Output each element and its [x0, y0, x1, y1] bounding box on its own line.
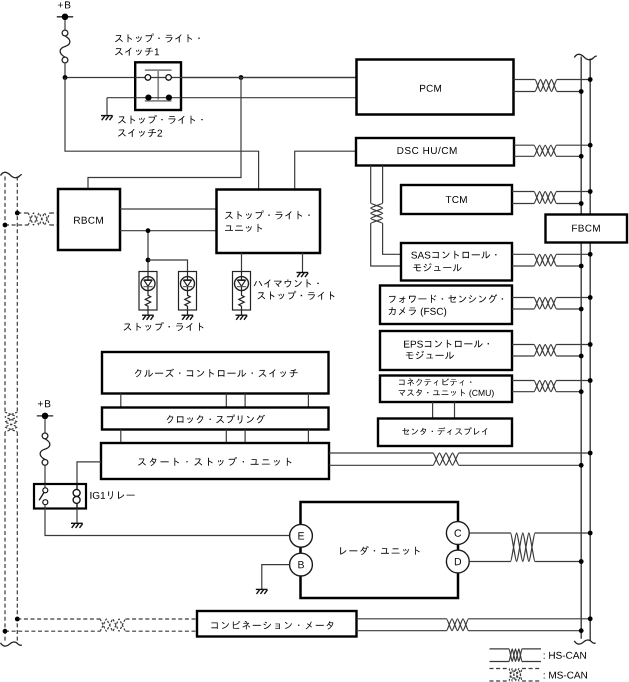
- label FSC line 2: [389, 307, 447, 317]
- junction dot on CAN-L line for wire pair SAS to HS-CAN bus: [579, 264, 584, 269]
- junction dot MS-CAN meter upper: [15, 617, 20, 622]
- wire fuse to IG1 relay: [44, 465, 46, 484]
- module center display: [378, 419, 512, 447]
- wire stop-light-switch row 2 (ground to PCM): [107, 97, 357, 99]
- switch 1 contact left (open): [145, 75, 151, 81]
- power symbol +B (top feed): [57, 1, 73, 20]
- switch 2 contact left (closed): [145, 95, 151, 101]
- ground below stop light lamp 2: [182, 315, 194, 320]
- wire HS-CAN bus CAN-L trunk (left vertical): [580, 57, 582, 639]
- wire switch row 2 ground drop: [106, 98, 108, 116]
- junction dot on CAN-H line for wire pair PCM to HS-CAN bus: [588, 77, 593, 82]
- wire D: switch output node to RBCM: [88, 78, 241, 190]
- switch box (stop-light switches 1 and 2): [135, 62, 181, 110]
- wire pair combination meter to HS-CAN bus: [357, 619, 591, 631]
- junction dot on CAN-L line for wire pair radar C/D to HS-CAN bus: [579, 559, 584, 564]
- junction dot on CAN-L line for wire pair PCM to HS-CAN bus: [579, 89, 584, 94]
- junction dot MS-CAN meter lower: [3, 629, 8, 634]
- wire start stop unit to IG1 relay coil: [77, 462, 101, 484]
- wire pair EPS to HS-CAN bus: [512, 345, 590, 357]
- relay contact bottom (open): [43, 500, 48, 505]
- label IG1 relay: [90, 491, 134, 499]
- label radar unit: [340, 546, 420, 555]
- module combination meter: [197, 611, 357, 637]
- break symbol at top of MS-CAN bus: [1, 172, 22, 177]
- switch actuator bars: [145, 70, 172, 101]
- label combination meter: [211, 621, 333, 630]
- radar terminal E: [290, 524, 313, 547]
- junction dot on CAN-L line for wire pair FSC to HS-CAN bus: [579, 307, 584, 312]
- label PCM: [420, 85, 441, 92]
- ground for stop-light switch 2: [101, 116, 113, 121]
- junction dot on CAN-L line for wire pair combination meter to HS-CAN bus: [579, 628, 584, 633]
- legend HS-CAN twisted pair symbol: [490, 649, 542, 662]
- break symbol at bottom of MS-CAN bus: [1, 642, 22, 646]
- wire branch to stop light 2: [148, 260, 188, 272]
- relay contact stem top: [44, 484, 46, 488]
- label EPS line 2: [406, 351, 454, 359]
- junction dot on CAN-L line for wire pair start stop unit to HS-CAN bus: [579, 463, 584, 468]
- relay coil IG1: [73, 484, 80, 509]
- break symbol at top of HS-CAN bus: [574, 54, 597, 59]
- legend HS-CAN text: [544, 652, 586, 659]
- ground for radar unit: [256, 589, 268, 594]
- wire radar B to ground: [262, 565, 290, 590]
- radar terminal D: [446, 550, 469, 573]
- label stop-light switch 2 line 1: [118, 115, 203, 124]
- junction dot MS-CAN line1/RBCM: [3, 223, 8, 228]
- wire MS-CAN bus to RBCM line 1 (dashed): [17, 213, 58, 225]
- break symbol at bottom of HS-CAN bus: [574, 640, 595, 644]
- module SAS control module: [401, 243, 512, 281]
- wire pair SAS to HS-CAN bus: [512, 254, 590, 266]
- junction dot on CAN-H line for wire pair TCM to HS-CAN bus: [588, 189, 593, 194]
- radar terminal B: [290, 553, 313, 576]
- module FBCM: [546, 215, 628, 243]
- high-mount stop light lamp: [233, 272, 251, 316]
- wire pair DSC HU/CM to HS-CAN bus: [514, 145, 590, 156]
- junction dot on CAN-H line for wire pair FSC to HS-CAN bus: [588, 295, 593, 300]
- power symbol +B (IG1 feed): [37, 400, 53, 419]
- wire B: +B node to stop-light unit: [65, 78, 259, 189]
- junction dot on CAN-H line for wire pair CMU to HS-CAN bus: [588, 378, 593, 383]
- module cruise control switch: [102, 352, 329, 394]
- wire MS-CAN bus to RBCM line 2 (dashed): [5, 213, 58, 225]
- junction dot on CAN-L line for wire pair DSC HU/CM to HS-CAN bus: [579, 154, 584, 159]
- wire RBCM to stop-light unit lower: [120, 230, 217, 232]
- legend MS-CAN text: [544, 672, 587, 679]
- wires cruise switch to clock spring: [121, 394, 309, 408]
- relay contact stem bottom: [44, 505, 46, 509]
- label stop light unit line 1: [225, 210, 310, 219]
- wire pair FSC to HS-CAN bus: [512, 298, 590, 310]
- wire +B2 to fuse: [44, 419, 46, 433]
- wire stop-light-switch row 1 (+B node to PCM): [65, 77, 357, 79]
- junction dot on CAN-L line for wire pair EPS to HS-CAN bus: [579, 354, 584, 359]
- wire CMU to display connector 2: [454, 402, 456, 419]
- stop light lamp 1: [139, 272, 157, 316]
- ground for stop light unit: [297, 273, 309, 278]
- wire MS-CAN bus to meter line 1 (dashed): [17, 619, 197, 631]
- wire IG1 coil ground: [76, 509, 78, 524]
- wire MS-CAN bus trunk line 2 (dashed): [5, 177, 17, 642]
- module DSC HU/CM: [356, 138, 514, 166]
- wire stop light unit to high-mount lamp: [241, 253, 243, 272]
- label CMU line 2: [399, 389, 494, 398]
- label TCM: [446, 196, 467, 203]
- fuse below top +B: [60, 30, 70, 63]
- wire RBCM to stop-light unit upper: [120, 208, 217, 210]
- label SAS line 2: [414, 263, 462, 271]
- wire pair PCM to HS-CAN bus: [514, 80, 591, 92]
- wire DSC to SAS line 2: [371, 166, 401, 255]
- node junction on RBCM lower wire: [146, 228, 151, 233]
- wire IG1 relay to radar terminal E: [45, 509, 290, 536]
- label stop lights: [124, 322, 204, 331]
- junction dot on CAN-H line for wire pair SAS to HS-CAN bus: [588, 252, 593, 257]
- label stop-light switch 2 line 2: [118, 129, 162, 137]
- relay contact top (open): [43, 488, 48, 493]
- junction dot on CAN-H line for wire pair DSC HU/CM to HS-CAN bus: [588, 143, 593, 148]
- junction dot on CAN-L line for wire pair TCM to HS-CAN bus: [579, 201, 584, 206]
- wire pair CMU to HS-CAN bus: [512, 381, 590, 392]
- ground for IG1 relay coil: [71, 523, 83, 528]
- module radar unit: [301, 502, 459, 598]
- wire pair radar C/D to HS-CAN bus: [469, 533, 590, 562]
- label EPS line 1: [404, 340, 489, 348]
- label FSC line 1: [389, 294, 503, 303]
- module EPS control module: [380, 331, 512, 370]
- switch 2 contact right (closed): [166, 95, 172, 101]
- relay switch blade: [39, 493, 44, 501]
- switch 1 contact right (open): [166, 75, 172, 81]
- stop light lamp 2: [179, 272, 197, 316]
- relay box IG1: [34, 484, 86, 509]
- label high-mount line 1: [254, 279, 319, 287]
- junction dot on CAN-H line for wire pair EPS to HS-CAN bus: [588, 342, 593, 347]
- module stop light unit: [217, 190, 321, 254]
- label center display: [402, 427, 487, 435]
- label stop-light switch 1 line 2: [115, 48, 159, 56]
- wire row1 inside switch box: [135, 77, 356, 79]
- wire pair start stop unit to HS-CAN bus: [329, 453, 590, 465]
- label CMU line 1: [399, 378, 471, 385]
- junction dot on CAN-L line for wire pair CMU to HS-CAN bus: [579, 389, 584, 394]
- junction dot on CAN-H line for wire pair combination meter to HS-CAN bus: [588, 616, 593, 621]
- label stop-light switch 1 line 1: [115, 34, 200, 43]
- wire stop light unit ground drop: [302, 253, 304, 272]
- fuse below second +B: [40, 433, 50, 465]
- node junction switch output: [239, 75, 244, 80]
- wire HS-CAN bus CAN-H trunk (right vertical): [589, 59, 591, 641]
- junction dot on CAN-H line for wire pair start stop unit to HS-CAN bus: [588, 451, 593, 456]
- node junction stop light branch: [146, 258, 151, 263]
- label high-mount line 2: [257, 291, 334, 300]
- label start stop unit: [138, 457, 291, 466]
- junction dot on CAN-H line for wire pair radar C/D to HS-CAN bus: [588, 531, 593, 536]
- label cruise control switch: [135, 369, 298, 378]
- label stop light unit line 2: [225, 224, 262, 232]
- wire from +B to fuse: [64, 20, 66, 30]
- wires clock spring to start stop unit: [121, 430, 309, 444]
- radar terminal C: [446, 522, 469, 545]
- junction dot MS-CAN line2/RBCM: [15, 211, 20, 216]
- module forward sensing camera FSC: [380, 286, 512, 325]
- wire CMU to display connector 1: [432, 402, 434, 419]
- ground below high-mount stop light lamp: [236, 315, 248, 320]
- label SAS line 1: [411, 251, 496, 259]
- wire from fuse to stop-light switch feed node: [64, 63, 66, 78]
- wire stop light feed drop: [147, 231, 149, 272]
- module clock spring: [102, 408, 329, 430]
- wire row2 inside switch box: [135, 97, 181, 99]
- label FBCM: [572, 225, 600, 232]
- module PCM: [357, 60, 514, 115]
- wire DSC to SAS line 1: [371, 166, 401, 267]
- wire C: stop-light unit to DSC HU/CM: [295, 151, 356, 188]
- label DSC HU/CM: [398, 147, 457, 154]
- module start stop unit: [101, 443, 329, 479]
- module connectivity master unit CMU: [380, 376, 512, 403]
- label RBCM: [74, 217, 103, 224]
- module RBCM: [58, 189, 120, 250]
- module TCM: [401, 185, 512, 214]
- ground below stop light lamp 1: [142, 315, 154, 320]
- wire pair TCM to HS-CAN bus: [512, 192, 590, 204]
- legend MS-CAN twisted pair symbol: [490, 669, 542, 682]
- wire MS-CAN bus trunk line 1 (dashed): [5, 177, 17, 642]
- label clock spring: [167, 415, 265, 424]
- node junction +B feed: [63, 75, 68, 80]
- wire MS-CAN bus to meter line 2 (dashed): [5, 619, 197, 631]
